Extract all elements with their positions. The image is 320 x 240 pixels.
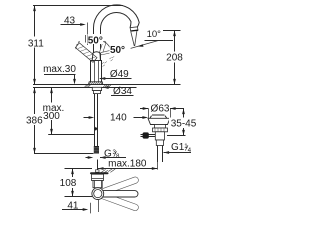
waste neck <box>155 125 166 129</box>
front view lever fan up <box>99 176 140 196</box>
dimension 208 <box>165 30 184 85</box>
dimension 386 <box>26 87 44 153</box>
supply shank <box>95 94 98 146</box>
lever swing ext line left <box>85 35 87 43</box>
front view lever foreshortened hatch <box>101 168 115 173</box>
spout arc outer <box>93 5 139 29</box>
svg-text:Ø34: Ø34 <box>113 86 132 97</box>
svg-text:max.180: max.180 <box>108 159 147 170</box>
front view lever nub <box>96 170 100 172</box>
label max.30 <box>43 64 76 85</box>
10 degree slant line <box>131 40 159 48</box>
svg-text:G1: G1 <box>171 142 185 153</box>
label 50 deg upper <box>88 34 104 46</box>
mousseur <box>130 27 138 31</box>
waste tail tube <box>158 146 163 163</box>
svg-text:140: 140 <box>110 113 127 124</box>
dimension 41 <box>62 200 99 214</box>
dimension max.300 <box>43 87 65 134</box>
lever position outline right <box>100 49 115 55</box>
spout riser inner line <box>100 29 102 61</box>
svg-text:311: 311 <box>28 39 44 50</box>
svg-text:35-45: 35-45 <box>171 118 197 129</box>
front view body block <box>92 174 104 188</box>
svg-text:max.30: max.30 <box>43 64 76 75</box>
pop-up waste plug <box>150 115 167 118</box>
faucet body <box>90 60 101 82</box>
front view lever bar <box>90 172 109 174</box>
spout riser outer line <box>93 29 95 53</box>
waste lever rod <box>141 134 156 136</box>
lever position outline up <box>99 41 106 55</box>
front view lever fan down <box>99 192 140 212</box>
dimension 208 top extension <box>163 30 181 32</box>
svg-text:10°: 10° <box>147 29 162 40</box>
pop-up waste flange <box>148 118 170 124</box>
mounting nut below deck <box>92 87 101 93</box>
lever hatch dashes right <box>102 56 115 66</box>
10 degree slant arrowhead <box>137 44 143 47</box>
hose junction diamond <box>94 127 97 131</box>
dimension 140 <box>84 113 149 124</box>
dimension 108 <box>59 169 79 197</box>
dimension 108 top extension <box>65 168 93 170</box>
svg-text:108: 108 <box>60 178 77 189</box>
label diameter 34 <box>103 86 137 97</box>
label G 3/8 <box>86 149 127 161</box>
waste tailpiece <box>156 140 163 146</box>
svg-text:386: 386 <box>26 116 43 127</box>
deck bottom line <box>33 87 137 89</box>
waste lever knob <box>143 132 149 138</box>
label G 1 1/4 <box>164 142 192 154</box>
spout arc inner <box>100 12 131 28</box>
svg-text:4: 4 <box>188 147 192 154</box>
shank thread block <box>94 146 99 154</box>
dimension 43 <box>61 15 88 45</box>
dimension max.300 extension line bottom <box>48 134 94 136</box>
deck top line <box>33 84 181 86</box>
svg-text:50°: 50° <box>110 45 125 56</box>
dimension 35-45 bottom extension <box>167 135 186 137</box>
dimension 386 extension line bottom <box>34 153 94 155</box>
deck section hatch left of base <box>85 85 91 88</box>
deck section hatch right of base <box>103 85 111 88</box>
svg-text:Ø49: Ø49 <box>110 69 129 80</box>
front view lever horizontal <box>98 191 138 197</box>
front view pivot circle <box>92 188 104 200</box>
cartridge dome <box>92 52 100 60</box>
waste body <box>155 132 164 140</box>
dimension 311 top extension line <box>33 5 123 7</box>
dimension diameter 63 <box>140 104 184 119</box>
svg-text:50°: 50° <box>88 35 103 46</box>
body base <box>89 82 103 85</box>
label 50 deg lower <box>110 45 126 56</box>
svg-text:43: 43 <box>64 15 76 26</box>
10 degree underline <box>145 40 174 42</box>
lever swing arc left <box>76 41 80 50</box>
label diameter 49 <box>100 69 132 80</box>
dimension max.180 <box>98 159 158 170</box>
dimension 108 bottom extension <box>65 196 93 198</box>
lever handle hatched <box>75 43 97 63</box>
lever swing arc right <box>104 42 110 48</box>
dimension 311 line <box>27 6 46 85</box>
dimension 35-45 <box>169 108 198 135</box>
water stream wedge <box>131 32 135 46</box>
waste mounting nut <box>153 128 168 132</box>
svg-text:Ø63: Ø63 <box>151 104 170 115</box>
svg-text:208: 208 <box>166 53 183 64</box>
svg-text:300: 300 <box>43 111 60 122</box>
